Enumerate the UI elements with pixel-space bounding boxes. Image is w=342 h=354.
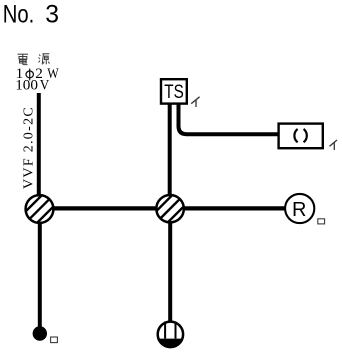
wire: left junction box down to switch xyxy=(38,209,42,333)
wire: TS to ceiling rosette (curved) xyxy=(179,104,279,134)
svg-text:TS: TS xyxy=(164,81,184,103)
junction box J1 (left) xyxy=(22,192,57,227)
label ロ (for R) xyxy=(318,219,325,224)
ceiling rosette box xyxy=(279,124,323,149)
label ロ (for switch) xyxy=(51,337,58,343)
switch ロ (dot) xyxy=(33,326,47,340)
power source kanji 電 xyxy=(18,54,29,64)
lamp receptacle R xyxy=(285,194,314,223)
power source kanji 源 xyxy=(39,54,50,65)
title "No. 3" xyxy=(3,1,59,28)
wire: power feed down to left junction box xyxy=(37,93,41,209)
junction box J2 (right) xyxy=(153,191,188,226)
label イ (for TS) xyxy=(191,97,199,107)
label イ (for rosette) xyxy=(330,140,338,150)
wire: TS down to right junction box xyxy=(168,104,172,209)
svg-text:100V: 100V xyxy=(15,77,49,94)
timer switch TS box xyxy=(161,79,187,103)
svg-text:No.: No. xyxy=(3,1,35,28)
wire: right junction box down to outlet xyxy=(168,209,172,334)
svg-text:3: 3 xyxy=(45,1,59,28)
svg-text:VVF 2.0-2C: VVF 2.0-2C xyxy=(22,106,37,189)
svg-text:R: R xyxy=(292,199,306,221)
wire: horizontal main run between junction boxes and to lamp R xyxy=(40,206,301,210)
wall outlet symbol xyxy=(157,322,184,349)
